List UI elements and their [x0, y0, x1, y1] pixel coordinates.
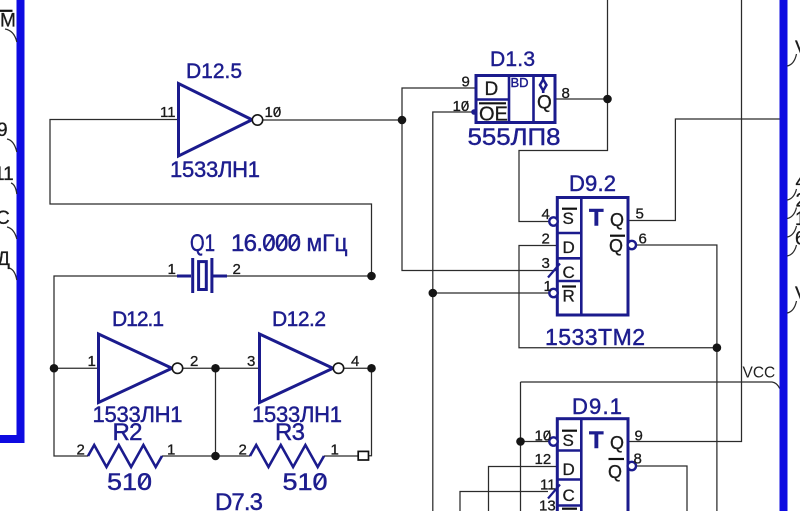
svg-text:3: 3	[247, 353, 255, 370]
svg-text:555ЛП8: 555ЛП8	[468, 124, 561, 151]
junction dot: node B D12.1 output	[211, 364, 220, 373]
bus entry curve: right 4	[787, 189, 796, 200]
junction dot: VCC / S node D9.1	[516, 437, 525, 446]
svg-text:BD: BD	[511, 75, 529, 90]
svg-text:C: C	[563, 486, 575, 505]
wire: junction to D9.1 pin 10 S bubble	[521, 441, 549, 443]
D1.3 left cell divider	[476, 98, 509, 101]
wire: R2 right lead / R3 left lead row	[162, 455, 250, 457]
inverter D12.2 output bubble	[333, 363, 343, 373]
wire: D9.1 pin 11 C input down to bottom edge	[460, 492, 548, 511]
svg-text:D9.1: D9.1	[572, 394, 622, 419]
crystal Q1 left lead stub	[177, 275, 191, 278]
wire: D12.2 output to node C	[344, 367, 372, 369]
svg-text:8: 8	[634, 451, 642, 468]
resistor R2 zigzag	[88, 445, 162, 467]
wire: R3 right lead to port square	[324, 455, 358, 457]
inverter D12.1 output bubble	[172, 363, 182, 373]
svg-text:D1.3: D1.3	[490, 48, 535, 71]
right bus group line	[780, 0, 788, 511]
svg-text:OE: OE	[479, 104, 508, 126]
svg-text:D9.2: D9.2	[569, 171, 616, 196]
bus entry curve: right 2	[787, 208, 796, 219]
wire: x=433 column to D9.2 pin 1 R input	[433, 292, 549, 294]
junction dot: D12.5 output node	[398, 116, 407, 125]
svg-text:9: 9	[635, 428, 643, 445]
wire: D12.5 output to junction	[263, 119, 402, 121]
svg-text:12: 12	[535, 451, 552, 468]
wire: D12.5 input pin11 loop to node A column	[50, 120, 372, 277]
svg-text:8: 8	[562, 85, 570, 102]
junction dot: node C D12.2 output	[367, 364, 376, 373]
svg-text:мГц: мГц	[307, 230, 348, 257]
flip-flop D9.1 1533TM2 box	[557, 419, 628, 511]
svg-text:11: 11	[160, 104, 176, 121]
wire: node B column down to R2/R3 row	[215, 368, 217, 456]
svg-text:R: R	[563, 287, 575, 306]
wire: vertical from top edge through pin-8 junction	[607, 0, 609, 99]
crystal Q1 right plate	[210, 258, 213, 293]
svg-text:Q: Q	[610, 210, 624, 230]
D9.1 S input bubble pin 10	[549, 437, 557, 445]
wire: D9.1 pin 12 D input down to bottom edge	[489, 467, 557, 511]
bus entry curve: right V bottom	[787, 301, 796, 313]
bus entry curve: right V top	[787, 54, 796, 66]
svg-text:T: T	[589, 427, 604, 454]
svg-text:16.000: 16.000	[231, 230, 301, 257]
junction dot: Qbar / D feedback node	[713, 343, 722, 352]
D9.2 D/C cell divider	[557, 257, 581, 260]
svg-text:D: D	[485, 79, 499, 100]
wire: D1.3 pin 8 output to junction	[557, 98, 608, 100]
svg-text:Q: Q	[608, 462, 622, 482]
svg-text:S: S	[563, 209, 574, 228]
svg-text:11: 11	[0, 164, 14, 185]
svg-text:9: 9	[462, 74, 470, 91]
bus entry curve: label 9	[7, 139, 17, 152]
svg-text:C: C	[0, 208, 10, 229]
svg-text:510: 510	[283, 469, 328, 496]
svg-text:4: 4	[542, 206, 550, 223]
svg-text:R2: R2	[113, 419, 143, 446]
svg-text:11: 11	[540, 477, 556, 494]
flip-flop D9.2 1533TM2 box	[557, 198, 628, 316]
svg-text:1: 1	[88, 353, 96, 370]
junction dot: OE / R column node	[429, 289, 438, 298]
junction dot: node B resistor row	[211, 452, 220, 461]
D9.2 C/R cell divider	[557, 280, 581, 283]
svg-text:1533ЛН1: 1533ЛН1	[170, 157, 260, 182]
svg-text:S: S	[563, 431, 574, 450]
svg-text:10: 10	[535, 428, 552, 445]
svg-text:3: 3	[542, 255, 550, 272]
left bus group line with bottom-left corner	[0, 0, 21, 439]
svg-text:R3: R3	[275, 419, 305, 446]
bus entry curve: label 11	[11, 183, 17, 194]
svg-text:D12.5: D12.5	[186, 60, 242, 83]
wire: node C column down to port square	[369, 368, 372, 456]
wire: node A junction to D12.1 input pin 1	[54, 367, 99, 369]
svg-text:510: 510	[107, 469, 152, 496]
D1.3 OE overbar	[479, 102, 506, 104]
svg-text:М: М	[0, 10, 16, 31]
wire: D9.1 pin 8 Qbar down to bottom edge	[636, 466, 687, 511]
wire: crystal node row left of Q1	[54, 276, 191, 456]
svg-text:Д: Д	[0, 249, 10, 270]
svg-text:D12.1: D12.1	[112, 308, 164, 331]
svg-text:1: 1	[167, 442, 175, 459]
svg-text:D12.2: D12.2	[272, 308, 326, 331]
svg-text:6: 6	[639, 231, 647, 248]
wire: D9.1 pin 9 Q output up to top edge	[630, 0, 742, 442]
bus entry curve: right 6	[787, 245, 796, 256]
D9.1 C dynamic input mark	[548, 485, 560, 499]
svg-text:D: D	[563, 238, 575, 257]
svg-text:9: 9	[0, 120, 8, 141]
wire: D9.2 pin 6 Qbar to x=717 column	[636, 245, 717, 511]
svg-text:1: 1	[168, 261, 176, 278]
svg-text:2: 2	[233, 261, 241, 278]
wire: VCC column down to D9.1 pin 10 S and bottom edge	[520, 382, 522, 511]
D1.3 column divider 1	[508, 76, 511, 123]
svg-text:Q: Q	[537, 93, 552, 114]
svg-text:D7.3: D7.3	[215, 489, 263, 511]
svg-text:5: 5	[636, 206, 644, 223]
D9.2 pin column divider	[580, 198, 583, 316]
crystal Q1 left plate	[191, 258, 194, 293]
wire: junction up to D1.3 pin 9	[402, 88, 475, 120]
D9.1 S/D cell divider	[557, 449, 581, 452]
bus entry curve: label C	[7, 227, 17, 239]
svg-text:2: 2	[77, 442, 85, 459]
bus entry curve: label M	[5, 29, 17, 42]
svg-text:VCC: VCC	[743, 365, 776, 382]
crystal Q1 right lead stub	[213, 275, 227, 278]
svg-text:1: 1	[331, 442, 339, 459]
D1.3 pin10 inversion dot	[471, 109, 477, 115]
wire: D1.3 pin 10 OE down the x=433 column	[433, 112, 475, 511]
svg-text:1533ТМ2: 1533ТМ2	[545, 324, 645, 350]
junction dot: D1.3 pin 8 node	[603, 95, 612, 104]
svg-text:10: 10	[453, 98, 470, 115]
D1.3 bidirectional diamond	[542, 77, 545, 93]
port square at R3 right	[358, 451, 368, 460]
wire: crystal right lead to node column	[213, 275, 372, 277]
svg-text:2: 2	[239, 442, 247, 459]
svg-text:T: T	[589, 205, 604, 232]
D9.1 C/R cell divider	[557, 504, 581, 507]
D9.2 C dynamic input mark	[548, 264, 560, 278]
inverter D12.5 output bubble	[252, 115, 262, 125]
inverter D12.1 triangle	[99, 334, 173, 403]
inverter D12.5 triangle	[179, 84, 253, 157]
junction dot: node A D12.1 input	[50, 364, 59, 373]
D9.2 S/D cell divider	[557, 232, 581, 235]
svg-text:13: 13	[539, 498, 556, 511]
D9.2 S input bubble pin 4	[549, 217, 557, 225]
D9.1 Qbar output bubble pin 8	[628, 462, 636, 470]
IC D1.3 555LP8 box	[476, 76, 555, 123]
svg-text:4: 4	[351, 353, 359, 370]
D9.1 pin column divider	[580, 419, 583, 511]
wire: VCC line to right bus with S-dip	[521, 382, 780, 389]
bus entry curve: label D left	[9, 268, 17, 280]
wire: D12.1 output to D12.2 input node B	[183, 367, 260, 369]
wire: pin-8 junction to D9.2 pin 4 S input	[519, 99, 608, 222]
svg-text:1: 1	[795, 209, 800, 230]
svg-text:6: 6	[795, 229, 800, 250]
svg-text:2: 2	[542, 231, 550, 248]
wire: x=717 column junction to D9.2 pin 2 D input	[519, 246, 717, 348]
D9.2 R input bubble pin 1	[549, 289, 557, 297]
inverter D12.2 triangle	[260, 334, 334, 403]
svg-text:Q: Q	[609, 236, 623, 256]
svg-text:1: 1	[544, 278, 552, 295]
junction dot: crystal right node	[367, 272, 376, 281]
svg-text:10: 10	[265, 104, 282, 121]
D1.3 column divider 2	[532, 76, 535, 123]
svg-text:V: V	[795, 284, 800, 305]
svg-text:V: V	[795, 38, 800, 59]
svg-text:Q: Q	[610, 433, 624, 453]
svg-text:2: 2	[190, 353, 198, 370]
D9.1 D/C cell divider	[557, 478, 581, 481]
resistor R3 zigzag	[250, 445, 324, 467]
svg-text:Q1: Q1	[190, 230, 215, 257]
D9.2 Qbar output bubble pin 6	[628, 241, 636, 249]
svg-text:D: D	[563, 460, 575, 479]
bus entry curve: right 1	[787, 226, 796, 237]
wire: D9.2 pin 5 Q output to right bus	[630, 119, 781, 221]
wire: junction down to D9.2 pin 3 C input	[402, 120, 556, 271]
crystal Q1 body rectangle	[199, 262, 207, 290]
svg-text:C: C	[563, 263, 575, 282]
